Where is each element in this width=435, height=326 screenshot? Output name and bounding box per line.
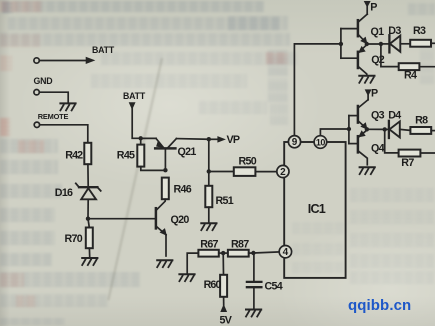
svg-text:R70: R70 [65, 233, 83, 245]
resistor R42 [65, 143, 91, 164]
wire node to Q20 base [88, 218, 155, 220]
pin 9 [288, 136, 300, 149]
pin 4 [279, 246, 291, 259]
terminal GND [34, 76, 69, 102]
node R50/R51 [207, 169, 211, 173]
node R87/C54/pin4 [251, 251, 255, 255]
node VP [207, 137, 211, 141]
svg-text:GND: GND [34, 76, 53, 86]
resistor R45 [117, 138, 166, 170]
svg-text:R50: R50 [239, 155, 257, 167]
watermark qqibb.cn [348, 297, 411, 314]
svg-text:R87: R87 [231, 239, 249, 251]
resistor R60 [204, 253, 228, 305]
ground (R51) [201, 223, 216, 230]
terminal REMOTE [34, 112, 88, 143]
svg-text:10: 10 [316, 138, 326, 148]
svg-text:D4: D4 [388, 110, 401, 122]
resistor R67 [187, 239, 219, 273]
node R67/R87/R60 [221, 251, 225, 255]
node Q1/Q2 base [339, 42, 343, 46]
terminal VP arrow [209, 134, 240, 146]
node BATT/R45/Q21 [139, 136, 143, 140]
svg-text:Q20: Q20 [171, 214, 190, 226]
svg-text:D3: D3 [388, 25, 401, 37]
svg-text:Q4: Q4 [371, 142, 385, 154]
svg-text:R42: R42 [65, 149, 83, 161]
resistor R87 [228, 239, 249, 257]
svg-text:C54: C54 [265, 280, 283, 292]
svg-text:BATT: BATT [123, 91, 146, 101]
svg-text:Q3: Q3 [371, 110, 385, 122]
terminal P (top) [364, 1, 377, 14]
wire Q1/Q2 base rail [340, 29, 342, 59]
svg-text:VP: VP [227, 134, 240, 146]
wire Q21 collector to VP node [176, 138, 207, 141]
wire Q3/Q4 base rail [348, 116, 350, 144]
svg-text:R3: R3 [413, 25, 426, 37]
svg-text:R67: R67 [200, 239, 218, 251]
pin 2 [277, 165, 289, 178]
terminal BATT [34, 45, 115, 63]
ground (C54) [246, 310, 261, 317]
svg-text:IC1: IC1 [308, 202, 326, 216]
svg-text:R8: R8 [415, 115, 428, 127]
transistor Q2 [341, 45, 385, 75]
svg-text:4: 4 [283, 247, 289, 258]
node D16/R70/Q20 [86, 217, 90, 221]
wire pin 10 to Q3/Q4 base [320, 129, 347, 136]
node Q1/Q2 emitters [365, 42, 369, 46]
ground (R70) [82, 258, 97, 265]
resistor R3 [410, 25, 434, 47]
terminal P (mid) [365, 87, 378, 99]
svg-text:9: 9 [292, 137, 298, 148]
node Q3/Q4 emitters [365, 127, 369, 131]
svg-text:R51: R51 [216, 195, 234, 207]
wire output row Q3Q4 [367, 128, 385, 130]
ground (GND terminal) [60, 103, 75, 110]
resistor R46 [162, 178, 192, 200]
svg-text:P: P [370, 1, 377, 13]
svg-text:P: P [371, 87, 378, 99]
resistor R4 [381, 44, 435, 82]
background bleed-through text bands [2, 1, 13, 13]
ground (Q20 emitter) [157, 260, 172, 267]
resistor R51 [205, 171, 233, 222]
zener diode D16 [55, 183, 101, 199]
svg-text:R4: R4 [404, 70, 417, 82]
transistor Q1 [341, 14, 384, 43]
IC1 box [284, 142, 345, 278]
node Q3/Q4 base [347, 127, 351, 131]
svg-text:R60: R60 [204, 279, 222, 291]
resistor R8 [410, 115, 434, 134]
svg-text:BATT: BATT [92, 45, 115, 55]
capacitor C54 [247, 253, 283, 308]
resistor R70 [65, 219, 93, 257]
transistor Q3 [349, 100, 385, 129]
svg-text:Q2: Q2 [371, 54, 385, 66]
wire pin 9 riser [294, 44, 339, 135]
svg-text:R46: R46 [174, 183, 192, 195]
svg-text:Q1: Q1 [371, 26, 385, 38]
terminal BATT mid [123, 91, 146, 138]
svg-text:D16: D16 [55, 187, 73, 199]
node D3/R4 [379, 42, 383, 46]
wire VP to R50 node [208, 139, 210, 171]
transistor Q21 [141, 138, 197, 168]
node R45/R46/Q21 base [163, 168, 167, 172]
paper crease [107, 58, 162, 300]
ground (R67) [179, 274, 194, 281]
resistor R7 [385, 129, 435, 168]
resistor R50 [209, 155, 277, 176]
ground (Q2 collector) [359, 76, 374, 83]
diode D3 [381, 25, 410, 53]
transistor Q4 [349, 130, 385, 165]
pin 10 [314, 136, 327, 149]
wire R87 to pin 4 [249, 252, 280, 253]
wire node [219, 252, 228, 254]
ground (Q4 collector) [360, 167, 375, 174]
wire output row Q1Q2 [367, 43, 381, 45]
svg-text:Q21: Q21 [178, 146, 197, 158]
diode D4 [385, 110, 411, 138]
wire R42 to D16 [87, 164, 89, 186]
node D4/R7 [383, 127, 387, 131]
wire D16 to node [87, 199, 89, 218]
svg-text:R45: R45 [117, 150, 135, 162]
svg-text:5V: 5V [220, 314, 233, 326]
transistor Q20 [156, 199, 189, 256]
svg-text:REMOTE: REMOTE [38, 112, 69, 121]
terminal 5V [220, 305, 233, 326]
svg-text:R7: R7 [401, 157, 414, 169]
svg-text:2: 2 [280, 167, 286, 178]
